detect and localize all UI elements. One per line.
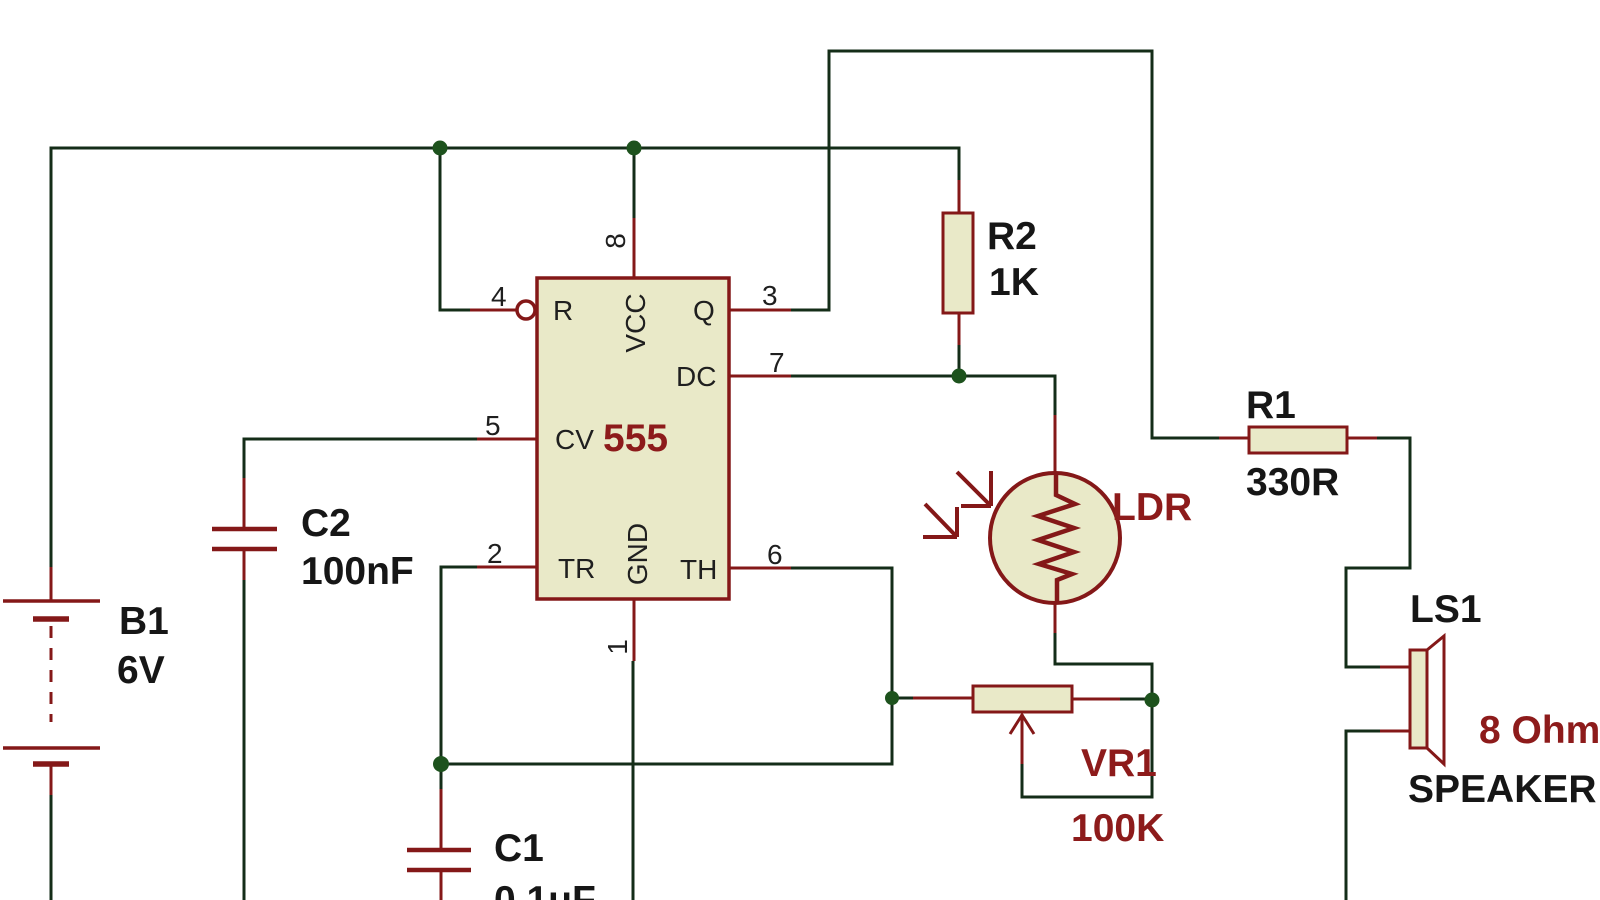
wire VR1 wiper loop: [1022, 700, 1152, 797]
svg-text:GND: GND: [622, 523, 653, 585]
svg-text:C1: C1: [494, 827, 544, 870]
pin 4 stub: [470, 309, 517, 312]
svg-text:6V: 6V: [117, 649, 165, 692]
wire pin8 vcc drop: [633, 148, 636, 218]
wire VR1 right link: [1120, 698, 1152, 701]
speaker LS1: [1380, 636, 1444, 764]
svg-text:C2: C2: [301, 502, 351, 545]
wire battery bottom down: [50, 795, 53, 900]
svg-text:TH: TH: [680, 554, 717, 585]
svg-text:LDR: LDR: [1112, 486, 1192, 529]
wire C2 bottom down: [243, 580, 246, 900]
capacitor C2: [212, 478, 277, 580]
wire LDR bottom to VR1 node: [1055, 633, 1152, 700]
svg-text:VR1: VR1: [1081, 742, 1157, 785]
wire pin3 output loop: [791, 51, 1219, 438]
wire VCC rail top-left: [51, 148, 959, 567]
svg-text:100K: 100K: [1071, 807, 1164, 850]
svg-text:3: 3: [762, 280, 778, 311]
resistor R2: [943, 180, 973, 345]
pin 1 stub: [633, 599, 636, 661]
pin 2 stub: [477, 566, 537, 569]
svg-text:555: 555: [603, 417, 668, 460]
svg-text:4: 4: [491, 281, 507, 312]
svg-text:R1: R1: [1246, 384, 1296, 427]
wire pin7 discharge net: [791, 376, 1055, 415]
pin 3 stub: [729, 309, 791, 312]
pin 7 stub: [729, 375, 791, 378]
wire pin4 reset net: [440, 148, 470, 310]
svg-text:Q: Q: [693, 295, 715, 326]
svg-text:100nF: 100nF: [301, 550, 414, 593]
capacitor C1: [407, 789, 471, 900]
battery B1: [3, 567, 100, 795]
junction node at 440,148: [433, 141, 448, 156]
LDR photoresistor: [923, 415, 1120, 633]
wire GND pin1 down: [632, 661, 635, 900]
svg-text:6: 6: [767, 539, 783, 570]
svg-text:LS1: LS1: [1410, 588, 1482, 631]
pin 5 stub: [477, 438, 537, 441]
svg-text:0.1uF: 0.1uF: [494, 879, 596, 900]
wire node to C1 top: [440, 764, 443, 789]
wire pin2 trigger net: [441, 567, 477, 764]
resistor R1: [1219, 427, 1377, 453]
wire R1 right to speaker top: [1346, 438, 1410, 667]
svg-text:DC: DC: [676, 361, 716, 392]
svg-text:TR: TR: [558, 553, 595, 584]
wire speaker bottom down: [1346, 731, 1380, 900]
svg-text:VCC: VCC: [620, 293, 651, 352]
svg-text:R2: R2: [987, 215, 1037, 258]
op-amp U1 555 IC body: [537, 278, 729, 599]
junction node at 441,764: [433, 756, 449, 772]
svg-text:8 Ohm: 8 Ohm: [1479, 709, 1600, 752]
svg-text:1K: 1K: [989, 261, 1039, 304]
svg-text:CV: CV: [555, 424, 594, 455]
wire R2 bottom to node: [958, 345, 961, 376]
junction node at 959,376: [952, 369, 967, 384]
wire pin5 CV to C2: [244, 439, 477, 478]
svg-text:1: 1: [602, 639, 633, 655]
wire pin6 threshold net: [791, 568, 892, 698]
svg-text:7: 7: [769, 347, 785, 378]
wire trigger rail to VR1 left: [441, 698, 892, 764]
potentiometer VR1: [913, 686, 1120, 764]
svg-text:R: R: [553, 295, 573, 326]
pin 8 stub: [633, 218, 636, 278]
pin 6 stub: [729, 567, 791, 570]
svg-text:8: 8: [600, 233, 631, 249]
svg-text:5: 5: [485, 410, 501, 441]
junction node at 1152,700: [1145, 693, 1160, 708]
svg-text:330R: 330R: [1246, 461, 1339, 504]
svg-text:B1: B1: [119, 600, 169, 643]
svg-text:SPEAKER: SPEAKER: [1408, 768, 1597, 811]
pin 4 bubble: [517, 301, 535, 319]
junction node at 634,148: [627, 141, 642, 156]
wire VR1 left link: [892, 697, 913, 700]
svg-text:2: 2: [487, 538, 503, 569]
junction node at 892,698: [885, 691, 899, 705]
